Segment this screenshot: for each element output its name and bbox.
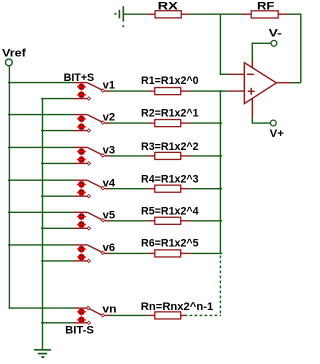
wire R3 to summing bus	[189, 155, 222, 157]
label vn	[102, 304, 117, 316]
switch Sn contact indicator top	[77, 308, 86, 315]
svg-text:v6: v6	[103, 242, 115, 254]
wire ground bus (second vertical)	[42, 99, 44, 350]
resistor R3	[147, 152, 190, 159]
svg-text:V+: V+	[270, 128, 284, 140]
wire R5 to summing bus	[189, 220, 222, 222]
node vn wire switch to Rn	[110, 314, 147, 316]
svg-text:v4: v4	[103, 177, 116, 189]
node v1 wire switch to R1	[110, 90, 147, 92]
switch S2 contact indicator top	[77, 115, 86, 122]
svg-text:v3: v3	[103, 145, 115, 157]
wire ground bus to S2 bottom throw	[41, 130, 74, 132]
svg-text:RF: RF	[257, 1, 275, 13]
switch S4 contact indicator top	[77, 181, 86, 188]
switch S4 (SPDT, bit 4)	[74, 180, 111, 198]
wire R2 to summing bus	[189, 122, 222, 124]
node v3 wire switch to R3	[110, 155, 147, 157]
wire R1 to summing bus	[189, 90, 222, 92]
label BIT+S	[64, 72, 95, 84]
resistor R5	[147, 217, 190, 224]
svg-text:R2=R1x2^1: R2=R1x2^1	[141, 108, 199, 120]
wire R4 to summing bus	[189, 188, 222, 190]
wire ground bus to S3 bottom throw	[41, 162, 74, 164]
label R1 value	[141, 75, 199, 87]
op-amp U1	[227, 60, 291, 117]
switch S6 (SPDT, bit 6)	[74, 245, 111, 263]
label V-	[269, 28, 283, 40]
ground GND1 (rotated left, at RX input)	[116, 6, 125, 27]
label R4 value	[141, 174, 199, 186]
wire RF to output (feedback)	[287, 14, 301, 83]
svg-text:v2: v2	[103, 112, 115, 124]
switch S3 contact indicator bottom	[77, 156, 86, 163]
wire summing bus (solid)	[219, 90, 221, 253]
wire summing bus to non-inverting input	[220, 90, 228, 92]
node v6 wire switch to R6	[110, 252, 147, 254]
resistor R1	[147, 88, 190, 95]
svg-text:R1=R1x2^0: R1=R1x2^0	[141, 75, 199, 87]
wire Vref bus to S5 top throw	[8, 211, 74, 213]
label v6	[103, 242, 115, 254]
svg-text:v5: v5	[103, 209, 115, 221]
svg-text:R6=R1x2^5: R6=R1x2^5	[141, 238, 199, 250]
resistor Rn	[147, 312, 185, 319]
switch S1 contact indicator top	[77, 83, 86, 90]
switch S2 contact indicator bottom	[77, 123, 86, 130]
wire ground bus to Sn bottom throw	[41, 322, 74, 324]
label R3 value	[141, 141, 199, 153]
switch S6 contact indicator bottom	[77, 253, 86, 260]
resistor R6	[147, 250, 190, 257]
wire Vref bus to S2 top throw	[8, 114, 74, 116]
label RX	[158, 0, 179, 12]
svg-text:R5=R1x2^4: R5=R1x2^4	[141, 206, 199, 218]
wire Vref bus (left vertical)	[8, 66, 10, 309]
switch S6 contact indicator top	[77, 245, 86, 252]
label v4	[103, 177, 116, 189]
svg-text:vn: vn	[102, 304, 117, 316]
ground GND2 (bottom)	[34, 350, 51, 357]
wire ground bus to S1 bottom throw	[41, 98, 74, 100]
label R5 value	[141, 206, 199, 218]
node v5 wire switch to R5	[110, 220, 147, 222]
terminal V+ and wire	[252, 117, 277, 126]
svg-text:BIT+S: BIT+S	[64, 72, 95, 84]
wire Vref bus to S4 top throw	[8, 179, 74, 181]
svg-text:RX: RX	[158, 0, 179, 12]
wire summing bus (dashed continuation)	[219, 256, 221, 316]
label R6 value	[141, 238, 199, 250]
switch S4 contact indicator bottom	[77, 189, 86, 196]
wire ground bus to S5 bottom throw	[41, 227, 74, 229]
switch S1 (SPDT, bit 1)	[74, 83, 111, 101]
wire ground bus to S6 bottom throw	[41, 260, 74, 262]
label RF	[257, 1, 275, 13]
label v1	[103, 80, 115, 92]
svg-text:R3=R1x2^2: R3=R1x2^2	[141, 141, 199, 153]
switch S3 (SPDT, bit 3)	[74, 147, 111, 165]
label Rn value	[141, 301, 213, 313]
switch S3 contact indicator top	[77, 148, 86, 155]
switch S5 contact indicator bottom	[77, 221, 86, 228]
resistor RF	[242, 11, 287, 18]
resistor R2	[147, 120, 190, 127]
terminal Vref	[5, 59, 12, 66]
svg-text:Vref: Vref	[2, 47, 26, 59]
wire Vref bus to S6 top throw	[8, 244, 74, 246]
wire Vref bus to S3 top throw	[8, 146, 74, 148]
node N1 junction / wire down to inverting input	[220, 14, 228, 74]
label v2	[103, 112, 115, 124]
switch Sn (SPDT, bit n)	[74, 306, 111, 324]
wire ground to RX	[124, 13, 147, 15]
svg-text:BIT-S: BIT-S	[65, 325, 94, 337]
label Vref	[2, 47, 26, 59]
label BIT-S	[65, 325, 94, 337]
svg-text:V-: V-	[269, 28, 283, 40]
svg-text:R4=R1x2^3: R4=R1x2^3	[141, 174, 199, 186]
node v4 wire switch to R4	[110, 188, 147, 190]
switch Sn contact indicator bottom	[77, 316, 86, 323]
label v3	[103, 145, 115, 157]
wire Vref bus to Sn top throw	[9, 307, 74, 309]
resistor R4	[147, 185, 190, 192]
wire RX to RF	[189, 13, 242, 15]
wire Vref bus to S1 top throw	[8, 82, 74, 84]
svg-text:Rn=Rnx2^n-1: Rn=Rnx2^n-1	[141, 301, 213, 313]
terminal V- and wire	[252, 40, 277, 60]
switch S5 contact indicator top	[77, 213, 86, 220]
switch S1 contact indicator bottom	[77, 91, 86, 98]
wire Rn to summing bus (dashed)	[185, 314, 221, 316]
label R2 value	[141, 108, 199, 120]
switch S2 (SPDT, bit 2)	[74, 115, 111, 133]
label V+	[270, 128, 284, 140]
wire R6 to summing bus	[189, 252, 222, 254]
label v5	[103, 209, 115, 221]
resistor RX	[147, 11, 190, 18]
switch S5 (SPDT, bit 5)	[74, 212, 111, 230]
svg-text:v1: v1	[103, 80, 115, 92]
wire ground bus to S4 bottom throw	[41, 195, 74, 197]
node v2 wire switch to R2	[110, 122, 147, 124]
